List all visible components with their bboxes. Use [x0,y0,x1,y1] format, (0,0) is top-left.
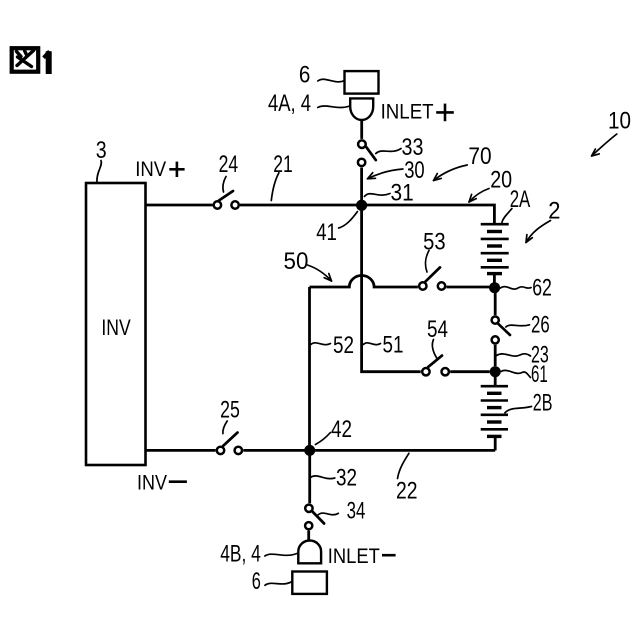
svg-text:34: 34 [347,497,366,524]
svg-text:INV: INV [101,315,131,340]
svg-text:3: 3 [96,137,107,164]
svg-text:INV: INV [135,157,167,181]
svg-text:4A, 4: 4A, 4 [268,90,311,117]
svg-text:51: 51 [383,332,404,359]
svg-text:31: 31 [391,180,414,207]
svg-text:2A: 2A [510,186,531,213]
svg-text:50: 50 [284,248,309,275]
svg-text:61: 61 [531,361,548,388]
svg-text:22: 22 [396,478,418,505]
svg-text:41: 41 [316,219,337,246]
svg-text:25: 25 [220,397,240,424]
svg-text:54: 54 [427,316,448,343]
svg-text:26: 26 [531,312,550,339]
svg-text:INLET: INLET [328,544,380,568]
svg-text:62: 62 [532,275,552,302]
svg-text:4B, 4: 4B, 4 [220,540,261,567]
svg-text:2B: 2B [533,390,553,417]
svg-text:10: 10 [608,107,631,134]
svg-text:INV: INV [137,471,168,495]
svg-text:32: 32 [336,465,357,492]
svg-text:24: 24 [219,151,239,178]
svg-text:6: 6 [299,61,311,88]
svg-text:53: 53 [423,228,446,255]
svg-text:2: 2 [548,197,560,224]
svg-text:70: 70 [468,143,491,170]
svg-text:52: 52 [333,332,354,359]
svg-text:21: 21 [273,151,293,178]
svg-text:INLET: INLET [381,100,434,124]
svg-text:6: 6 [252,568,261,595]
svg-text:42: 42 [331,416,352,443]
